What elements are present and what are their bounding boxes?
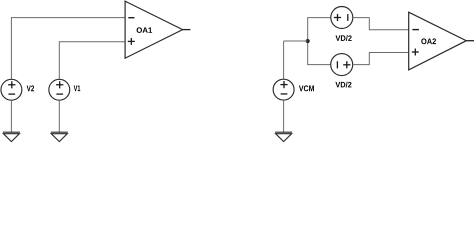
voltage source VCM xyxy=(273,79,294,100)
ground xyxy=(275,132,292,141)
wire xyxy=(284,40,308,42)
wire xyxy=(59,42,125,80)
op-amp OA1 xyxy=(125,1,190,58)
label V2 xyxy=(27,85,34,91)
label VD/2 top xyxy=(335,35,351,41)
wire xyxy=(308,18,331,65)
wire xyxy=(11,18,125,80)
wire xyxy=(10,100,12,132)
voltage source V1 xyxy=(49,79,70,100)
op-amp OA2 xyxy=(409,12,474,70)
wire xyxy=(353,53,409,65)
voltage source VD/2 top xyxy=(331,7,353,29)
label V1 xyxy=(74,85,81,91)
wire xyxy=(353,18,409,30)
label VCM xyxy=(299,85,314,91)
voltage source VD/2 bottom xyxy=(331,54,353,76)
label VD/2 bottom xyxy=(335,82,351,88)
ground xyxy=(51,132,68,141)
ground xyxy=(3,132,20,141)
voltage source V2 xyxy=(1,79,22,100)
wire xyxy=(58,100,60,132)
wire xyxy=(283,41,285,79)
wire xyxy=(283,100,285,132)
junction xyxy=(306,39,310,43)
